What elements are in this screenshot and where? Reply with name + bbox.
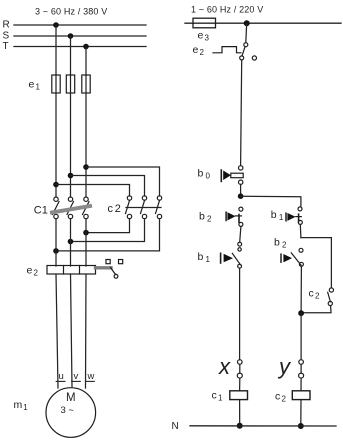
wire coil c2 to N — [300, 400, 302, 426]
wire S bus — [14, 35, 146, 37]
pushbutton b0 plunger — [220, 170, 222, 181]
wire L3 bus to fuse — [85, 47, 87, 76]
svg-text:3 ~ 60 Hz / 380 V: 3 ~ 60 Hz / 380 V — [35, 7, 107, 17]
svg-text:b2: b2 — [199, 211, 212, 224]
svg-text:c2: c2 — [108, 203, 121, 215]
wire junction to y terminals — [300, 313, 302, 360]
wire L tap to e2 contact — [245, 23, 248, 42]
junction R tap — [53, 22, 59, 28]
contactor c1 linkage bar — [52, 206, 90, 213]
junction L1 lower tap — [53, 248, 59, 254]
svg-text:y: y — [277, 354, 292, 379]
wire L3 fuse to c1 — [85, 93, 87, 197]
motor m1 circle — [46, 388, 96, 438]
fuse e1 pole2 — [66, 75, 74, 93]
pushbutton b2 left plunger — [225, 212, 227, 220]
wire N bus — [190, 425, 336, 427]
svg-text:x: x — [218, 354, 231, 379]
terminal circle y upper — [299, 360, 304, 365]
overload e2 aux terminal square A — [106, 260, 110, 264]
fuse e1 pole1 — [52, 75, 60, 93]
overload relay e2 box — [47, 266, 96, 275]
wire L1 fuse to c1 — [55, 93, 57, 197]
overload e2 aux contact arm — [111, 268, 116, 275]
svg-text:c2: c2 — [309, 288, 320, 301]
wire b1 right to branch node — [299, 224, 302, 237]
svg-text:v: v — [74, 371, 79, 382]
junction node control split — [238, 193, 244, 199]
svg-text:e1: e1 — [29, 79, 41, 92]
junction L1 upper tap — [53, 182, 59, 188]
pushbutton b1 left plunger — [220, 253, 222, 263]
fuse e1 pole3 — [82, 75, 90, 93]
fuse e3 — [193, 18, 216, 28]
pushbutton b2 right plunger — [280, 254, 282, 262]
contactor c2 pole3 — [156, 196, 162, 219]
contactor c2 linkage line — [126, 207, 161, 209]
junction lower branch merge — [298, 310, 304, 316]
overload e2 aux terminal square B — [119, 260, 123, 264]
wire L phase bus — [185, 22, 341, 24]
svg-text:T: T — [3, 41, 9, 52]
wire L1 c1 to e2 — [55, 219, 57, 266]
pushbutton b1 left NC — [232, 242, 241, 268]
e2 trip contact NC — [240, 43, 248, 60]
svg-text:C1: C1 — [34, 205, 48, 217]
coil c1 — [230, 391, 248, 400]
contactor c1 pole3 — [83, 197, 90, 219]
pushbutton b0 NC — [231, 166, 243, 185]
pushbutton b2 right NO — [291, 248, 303, 266]
pushbutton b2 right button head — [283, 254, 292, 262]
svg-text:3 ~: 3 ~ — [61, 405, 75, 416]
junction S tap — [68, 33, 74, 39]
wire b2 to b1 left — [240, 226, 241, 242]
wire b1 left to coil c1 — [239, 268, 241, 360]
contactor c1 pole2 — [67, 197, 74, 219]
wire U e2 to motor — [56, 274, 58, 388]
wire L2 fuse to c1 — [70, 93, 72, 197]
wire c2 pole3 bottom to L1 — [56, 219, 160, 251]
pushbutton b0 button head — [223, 171, 231, 181]
wire L3 c1 to e2 — [85, 219, 87, 266]
wire L2 bus to fuse — [70, 36, 72, 75]
svg-text:N: N — [172, 421, 179, 432]
wire c2 pole2 bottom to L2 — [71, 219, 145, 242]
svg-text:e2: e2 — [27, 265, 39, 278]
pushbutton b1 right button head — [287, 213, 295, 221]
wire y to coil c2 — [300, 378, 302, 391]
svg-text:M: M — [66, 392, 76, 404]
wire c2 aux to junction — [301, 306, 331, 313]
svg-text:b1: b1 — [271, 209, 284, 222]
terminal u underline — [56, 380, 65, 382]
overload e2 trip linkage step line — [213, 47, 241, 53]
wire L2 to c2 pole2 top — [71, 176, 145, 197]
wire R bus — [14, 24, 146, 26]
pushbutton b1 right NO — [296, 207, 303, 225]
terminal w underline — [86, 380, 95, 382]
overload e2 aux arm end circle — [114, 274, 118, 278]
svg-text:u: u — [59, 371, 64, 382]
junction c1 on N — [237, 423, 243, 429]
terminal circle y lower — [299, 373, 304, 378]
junction T tap — [83, 44, 89, 50]
junction L2 lower tap — [68, 239, 74, 245]
junction L3 upper tap — [83, 164, 89, 170]
pushbutton b1 right plunger — [285, 213, 287, 221]
svg-text:b0: b0 — [198, 168, 211, 181]
svg-text:R: R — [3, 20, 10, 31]
svg-text:c1: c1 — [212, 390, 223, 403]
overload e2 trip linkage bar — [96, 266, 112, 269]
wire L1 bus to fuse — [55, 25, 57, 75]
wire V e2 to motor — [71, 274, 73, 387]
e2 trip contact stop circle — [252, 56, 256, 60]
junction L2 upper tap — [68, 173, 74, 179]
wire branch to c2 aux — [301, 238, 332, 288]
wire L2 c1 to e2 — [70, 219, 72, 266]
pushbutton b2 left button head — [227, 212, 235, 220]
wire L3 to c2 pole3 top — [86, 167, 160, 196]
junction c2 on N — [298, 423, 304, 429]
wire x terminals — [239, 364, 241, 373]
wire W e2 to motor — [85, 274, 88, 388]
wire junction to b1 right branch — [241, 196, 301, 207]
wire y terminals — [300, 364, 302, 373]
svg-text:m1: m1 — [14, 399, 29, 412]
pushbutton b1 left button head — [224, 254, 233, 262]
terminal v underline — [72, 380, 81, 382]
wire e2 contact to b0 — [241, 60, 242, 166]
wire b0 to junction — [240, 184, 242, 196]
contactor c2 pole2 — [141, 196, 147, 219]
wire x to coil c1 — [239, 378, 241, 391]
svg-text:e2: e2 — [193, 44, 205, 57]
terminal circle x upper — [238, 360, 243, 365]
contact c2 aux NC — [328, 288, 334, 306]
pushbutton b2 left NO — [235, 207, 243, 226]
svg-text:w: w — [87, 371, 95, 382]
wire c2 pole1 bottom to L3 — [86, 219, 130, 233]
svg-text:c2: c2 — [275, 390, 286, 403]
svg-text:1 ~ 60 Hz / 220 V: 1 ~ 60 Hz / 220 V — [191, 5, 263, 15]
svg-text:b1: b1 — [198, 251, 211, 264]
wire T bus — [14, 46, 146, 48]
svg-text:S: S — [3, 31, 10, 42]
terminal circle x lower — [237, 373, 242, 378]
wire coil c1 to N — [239, 400, 241, 426]
wire b2 right to lower junction — [300, 266, 302, 313]
junction L3 lower tap — [83, 230, 89, 236]
contactor c2 pole1 — [126, 196, 132, 219]
svg-text:b2: b2 — [274, 237, 287, 250]
wire L1 to c2 pole1 top — [56, 185, 130, 197]
contactor c1 pole1 — [53, 197, 60, 219]
svg-text:e3: e3 — [198, 30, 210, 43]
coil c2 — [292, 391, 310, 400]
junction L tap — [244, 20, 250, 26]
